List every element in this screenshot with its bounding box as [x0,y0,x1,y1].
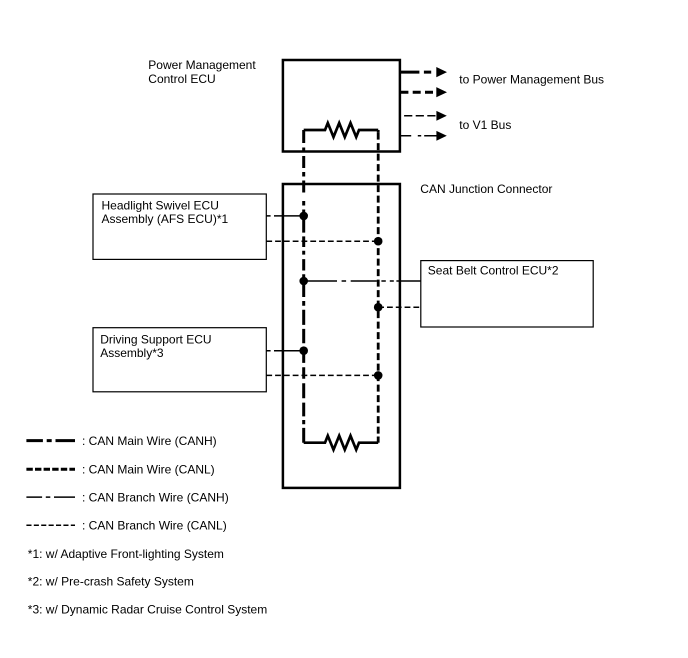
svg-text:: CAN Main Wire (CANH): : CAN Main Wire (CANH) [82,434,217,448]
node: junction of Headlight CANH branch on left bus [299,212,308,221]
legend line: CAN Main Wire (CANH) sample [26,439,75,442]
wire: CANH branch from Driving Support ECU to left bus [266,350,303,352]
wire: CANL branch from Driving Support ECU to right bus [266,374,378,376]
label: Power Management Control ECU [148,58,256,86]
box: CAN Junction Connector [283,184,400,488]
arrow: CAN branch wire CANH to V1 Bus [400,131,447,141]
svg-text:Assembly*3: Assembly*3 [100,346,164,360]
label: Headlight Swivel ECU Assembly (AFS ECU)*1 [102,198,229,226]
legend line: CAN Branch Wire (CANL) sample [26,524,75,526]
svg-text:: CAN Branch Wire (CANL): : CAN Branch Wire (CANL) [82,518,227,532]
box U1: Power Management Control ECU [283,60,400,152]
wire: CANH branch from Headlight Swivel ECU to left bus [266,215,303,217]
arrow: CAN branch wire CANL to V1 Bus [404,111,447,121]
arrow: CAN main wire CANL to Power Management Bus [400,87,447,97]
node: junction of Seat Belt CANL branch on right bus [374,303,383,312]
wire: CAN main wire CANH vertical (left bus line) [302,130,305,443]
legend line: CAN Branch Wire (CANH) sample [26,496,75,498]
wire: CANH branch from left bus to Seat Belt Control ECU [304,280,421,282]
svg-text:*2: w/ Pre-crash Safety System: *2: w/ Pre-crash Safety System [28,575,194,589]
svg-text:: CAN Branch Wire (CANH): : CAN Branch Wire (CANH) [82,491,229,505]
svg-text:*1: w/ Adaptive Front-lighting: *1: w/ Adaptive Front-lighting System [28,547,224,561]
svg-text:Power Management: Power Management [148,58,256,72]
resistor R1: termination resistor inside Power Management Control ECU [304,123,379,137]
svg-text:to Power Management Bus: to Power Management Bus [459,72,604,86]
svg-text:CAN Junction Connector: CAN Junction Connector [420,182,552,196]
resistor R2: termination resistor inside CAN Junction Connector [304,436,379,450]
box: Seat Belt Control ECU*2 [421,261,593,327]
wire: CANL branch from Headlight Swivel ECU to right bus [266,240,378,242]
node: junction of Headlight CANL branch on right bus [374,237,383,246]
node: junction of Seat Belt CANH branch on left bus [299,277,308,286]
arrow: CAN main wire CANH to Power Management Bus [400,67,447,77]
wire: CANL branch from right bus to Seat Belt Control ECU [378,306,421,308]
legend line: CAN Main Wire (CANL) sample [26,468,75,471]
svg-text:*3: w/ Dynamic Radar Cruise Co: *3: w/ Dynamic Radar Cruise Control Syst… [28,602,267,616]
svg-text:Assembly (AFS ECU)*1: Assembly (AFS ECU)*1 [102,212,229,226]
svg-text:: CAN Main Wire (CANL): : CAN Main Wire (CANL) [82,463,215,477]
svg-text:to V1 Bus: to V1 Bus [459,118,511,132]
wire: CAN main wire CANL vertical (right bus line) [377,130,380,443]
node: junction of Driving Support CANH branch on left bus [299,346,308,355]
svg-text:Driving Support ECU: Driving Support ECU [100,332,211,346]
svg-text:Seat Belt Control ECU*2: Seat Belt Control ECU*2 [428,264,559,278]
label: Driving Support ECU Assembly*3 [100,332,211,360]
svg-text:Headlight Swivel ECU: Headlight Swivel ECU [102,198,219,212]
node: junction of Driving Support CANL branch on right bus [374,371,383,380]
svg-text:Control ECU: Control ECU [148,72,215,86]
box: Headlight Swivel ECU Assembly (AFS ECU)*1 [93,194,266,259]
box: Driving Support ECU Assembly*3 [93,328,266,392]
